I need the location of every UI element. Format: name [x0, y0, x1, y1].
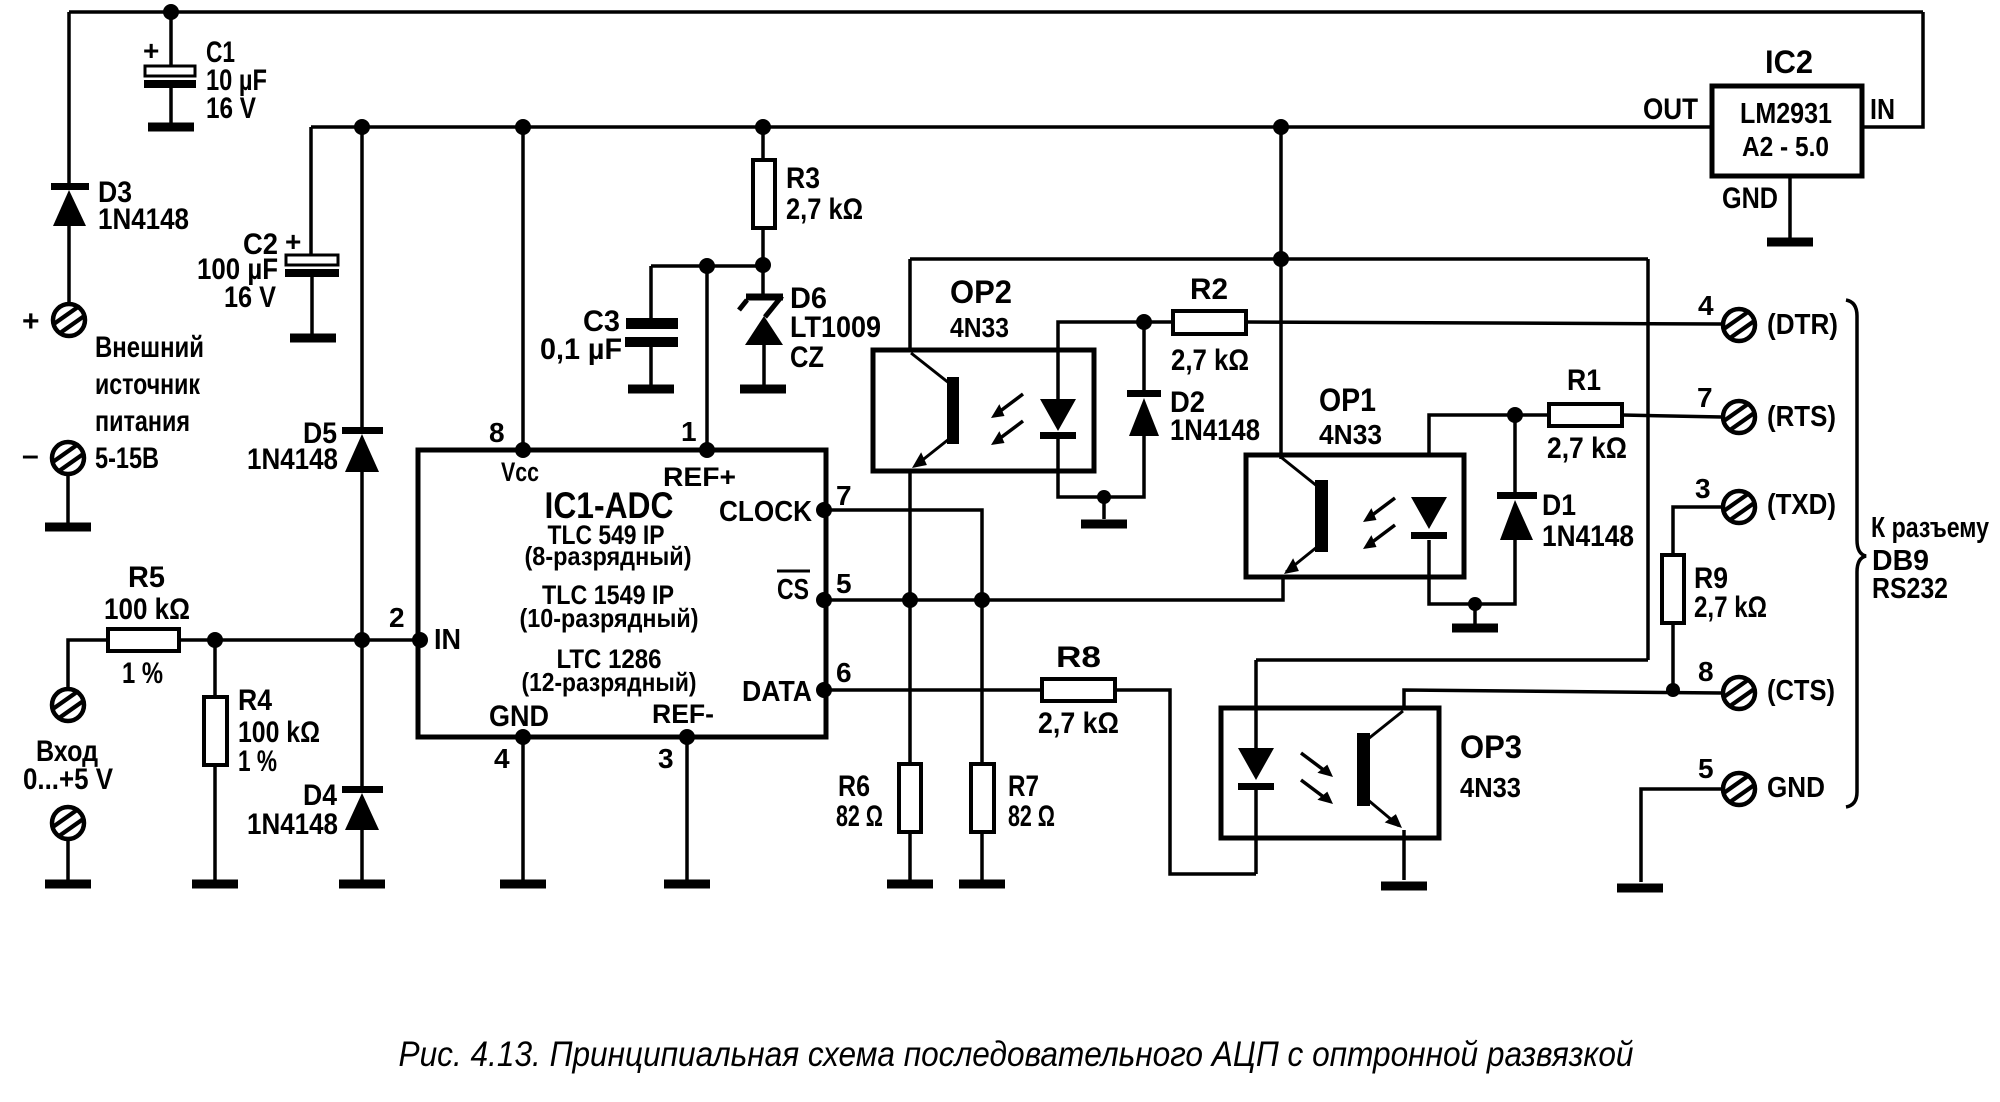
label terminal 5 GND	[1698, 753, 1825, 804]
label R3	[786, 162, 863, 226]
terminal input upper	[52, 689, 84, 721]
wire OP2 LED anode to R2	[1058, 322, 1173, 399]
svg-text:R3: R3	[786, 162, 820, 195]
label terminal 7 RTS	[1697, 382, 1836, 433]
wire D1 cathode stub	[1513, 415, 1517, 493]
svg-text:D1: D1	[1542, 489, 1576, 522]
resistor R6	[899, 764, 921, 832]
terminal 7 RTS	[1723, 401, 1755, 433]
svg-text:(10-разрядный): (10-разрядный)	[520, 603, 699, 633]
opto-coupler OP1 LED	[1411, 497, 1447, 539]
diode D1	[1497, 492, 1537, 540]
label C1	[143, 35, 267, 125]
wire IC1 pin4 GND to ground	[521, 737, 525, 880]
svg-text:DATA: DATA	[742, 676, 812, 708]
wire rail2 to D5	[360, 127, 364, 428]
wire minus terminal to ground	[66, 474, 70, 524]
IC1 CS overline	[777, 570, 810, 573]
ground under OP3	[1381, 885, 1427, 887]
wire OP3 LED anode drop	[1254, 660, 1258, 748]
IC1 internal labels	[434, 457, 812, 733]
svg-text:(TXD): (TXD)	[1767, 489, 1836, 521]
diode D3	[51, 183, 89, 226]
wire right distribution drop x1648	[1646, 259, 1650, 660]
svg-text:1N4148: 1N4148	[98, 203, 189, 236]
svg-text:2,7 kΩ: 2,7 kΩ	[786, 193, 863, 226]
wire OP1 LED cathode to ground node	[1429, 540, 1475, 604]
svg-text:2: 2	[389, 602, 405, 633]
svg-text:4N33: 4N33	[950, 312, 1009, 343]
ground under C3	[628, 388, 674, 390]
svg-text:2,7 kΩ: 2,7 kΩ	[1547, 432, 1627, 465]
svg-text:4N33: 4N33	[1319, 419, 1382, 450]
opto-coupler OP2 box	[873, 350, 1094, 471]
resistor R3	[753, 160, 775, 228]
svg-text:R7: R7	[1008, 770, 1039, 803]
opto-coupler OP1 phototransistor	[1280, 458, 1328, 579]
svg-text:GND: GND	[1722, 182, 1778, 215]
resistor R4	[204, 697, 227, 765]
wire distribution to OP3 y660	[1256, 658, 1648, 662]
svg-text:REF+: REF+	[663, 462, 736, 492]
ground under D6	[740, 388, 786, 390]
svg-text:8: 8	[489, 417, 505, 448]
svg-text:5-15В: 5-15В	[95, 442, 159, 475]
label C3	[540, 305, 622, 366]
resistor R2	[1173, 311, 1246, 334]
wire D5 anode down to IN node	[360, 472, 364, 640]
svg-text:+: +	[285, 226, 301, 257]
svg-text:OP1: OP1	[1319, 382, 1376, 418]
svg-text:(CTS): (CTS)	[1767, 675, 1835, 707]
wire D1 anode to ground node	[1475, 540, 1515, 604]
opto-coupler OP2 phototransistor	[908, 353, 959, 473]
wire R4 to ground	[213, 765, 217, 880]
svg-text:R6: R6	[838, 770, 870, 803]
svg-text:5: 5	[836, 568, 852, 599]
DB9 connector bracket	[1846, 300, 1866, 807]
svg-text:7: 7	[1697, 382, 1713, 413]
svg-text:источник: источник	[95, 368, 201, 401]
wire OP2 collector riser	[908, 259, 912, 352]
wire left branch from rail to D3	[67, 12, 71, 184]
svg-text:1N4148: 1N4148	[1542, 520, 1634, 553]
svg-text:+: +	[143, 35, 159, 66]
wire rail2 to R3	[761, 127, 765, 160]
wire D3 anode to + terminal	[67, 226, 71, 304]
wire C2 top stub	[309, 127, 313, 256]
svg-text:GND: GND	[489, 700, 549, 733]
svg-text:LT1009: LT1009	[790, 311, 881, 344]
svg-text:R5: R5	[128, 561, 165, 594]
svg-text:2,7 kΩ: 2,7 kΩ	[1171, 344, 1249, 377]
label R7	[1008, 770, 1055, 833]
ground under OP1/D1	[1452, 627, 1498, 629]
wire D6 anode to ground	[762, 345, 766, 385]
svg-text:–: –	[22, 439, 39, 472]
wire R1 to RTS terminal	[1622, 415, 1722, 417]
ground under OP2/D2	[1081, 523, 1127, 525]
svg-text:16 V: 16 V	[224, 281, 276, 314]
svg-text:4: 4	[1698, 290, 1714, 321]
label input	[23, 735, 113, 796]
svg-text:1: 1	[681, 416, 697, 447]
opto-coupler OP3 LED	[1238, 748, 1274, 790]
wire OP3 emitter to ground	[1402, 830, 1406, 880]
terminal 4 DTR	[1723, 309, 1755, 341]
wire CLOCK from IC1 pin7	[826, 510, 982, 600]
label D3	[98, 176, 189, 236]
wire rail2 to IC1 pin8	[521, 127, 525, 450]
label terminal 3 TXD	[1695, 473, 1836, 521]
svg-text:0,1 µF: 0,1 µF	[540, 333, 622, 366]
wire +5V rail (rail 2)	[311, 125, 1712, 129]
svg-text:3: 3	[1695, 473, 1711, 504]
svg-text:4: 4	[494, 743, 510, 774]
resistor R9	[1662, 555, 1684, 623]
zener diode D6	[739, 296, 783, 345]
wire C2 bottom stub	[310, 277, 314, 335]
wire rail2 drop at x1281	[1279, 127, 1283, 259]
svg-text:16 V: 16 V	[206, 92, 256, 125]
wire node to IC1 pin1 REF+	[705, 266, 709, 450]
ground under IC2	[1767, 241, 1813, 243]
label D5	[247, 417, 338, 476]
svg-text:IC2: IC2	[1765, 44, 1813, 80]
terminal 3 TXD	[1723, 491, 1755, 523]
label external supply text	[95, 331, 204, 475]
wire R5 to IC1 pin2 IN	[179, 638, 420, 642]
svg-text:LM2931: LM2931	[1740, 98, 1832, 130]
wire CS from IC1 pin5 to OP1 emitter	[826, 576, 1283, 600]
wire R3 bottom to node	[761, 228, 765, 265]
wire D4 anode to ground	[360, 830, 364, 880]
wire R8 to OP3 LED cathode	[1115, 690, 1256, 874]
label OP2	[950, 274, 1012, 343]
svg-text:IN: IN	[434, 624, 461, 656]
wire node to R4	[213, 640, 217, 697]
svg-text:4N33: 4N33	[1460, 772, 1521, 803]
wire OP2 ground stub	[1102, 497, 1106, 519]
opto-coupler OP2 LED	[1040, 399, 1076, 439]
svg-text:R4: R4	[238, 684, 272, 717]
svg-text:3: 3	[658, 743, 674, 774]
wire input terminal to R5	[68, 640, 108, 689]
wire D2 anode to ground node	[1104, 436, 1144, 497]
wire C3/REF+ node horizontal	[651, 264, 763, 268]
wire OP2 emitter down through CS node to R6	[908, 469, 912, 764]
svg-text:2,7 kΩ: 2,7 kΩ	[1694, 591, 1767, 624]
svg-text:+: +	[22, 305, 40, 338]
opto-coupler OP1 box	[1246, 455, 1464, 577]
label terminal 8 CTS	[1698, 656, 1835, 707]
wire +5V distribution horizontal y259	[910, 257, 1648, 261]
figure caption	[399, 1035, 1634, 1074]
wire node to OP1 collector drop x1281	[1279, 259, 1283, 459]
wire node to D6	[761, 265, 765, 295]
IC2 regulator box	[1712, 86, 1862, 176]
IC1 pin numbers	[389, 416, 852, 774]
svg-text:OUT: OUT	[1643, 93, 1698, 126]
label OP3	[1460, 729, 1522, 803]
terminal input lower	[52, 807, 84, 839]
ground under D4	[339, 883, 385, 885]
wire IC1 pin3 REF- to ground	[685, 737, 689, 880]
terminal 8 CTS	[1723, 677, 1755, 709]
svg-text:100 kΩ: 100 kΩ	[104, 593, 190, 626]
svg-text:1 %: 1 %	[122, 657, 163, 690]
label IC2	[1643, 44, 1895, 215]
wire C1 stub from rail	[169, 12, 173, 67]
label D4	[247, 779, 338, 841]
wire C1 bottom stub	[169, 88, 173, 124]
ground under R6	[887, 883, 933, 885]
label C2	[197, 226, 301, 314]
svg-text:Vcc: Vcc	[501, 457, 539, 487]
opto-coupler OP3 light arrows	[1301, 753, 1337, 809]
terminal + external supply	[53, 304, 85, 336]
svg-text:(12-разрядный): (12-разрядный)	[522, 667, 697, 697]
svg-text:A2 - 5.0: A2 - 5.0	[1742, 131, 1829, 162]
ground under C1	[148, 126, 194, 128]
svg-text:(8-разрядный): (8-разрядный)	[525, 541, 692, 571]
wire OP3 LED cathode stub	[1254, 790, 1258, 874]
svg-text:(RTS): (RTS)	[1767, 401, 1836, 433]
resistor R8	[1042, 679, 1115, 701]
svg-text:Внешний: Внешний	[95, 331, 204, 364]
label R9	[1694, 562, 1767, 624]
svg-text:2,7 kΩ: 2,7 kΩ	[1038, 707, 1119, 740]
wire R7 to ground	[980, 832, 984, 880]
svg-text:7: 7	[836, 480, 852, 511]
opto-coupler OP3 box	[1221, 708, 1439, 838]
label R5	[104, 561, 190, 690]
svg-text:К разъему: К разъему	[1871, 512, 1989, 544]
svg-text:1 %: 1 %	[238, 745, 277, 778]
svg-text:RS232: RS232	[1872, 573, 1948, 605]
ground under IC1 pin3	[664, 883, 710, 885]
svg-text:CLOCK: CLOCK	[719, 496, 812, 528]
label external supply -	[22, 439, 39, 472]
label D1	[1542, 489, 1634, 553]
wire CLOCK node down to R7	[980, 600, 984, 764]
label D6	[790, 282, 881, 374]
IC1 ADC box	[418, 450, 826, 737]
wire DATA from IC1 pin6 to R8	[826, 688, 1042, 692]
wire D4 cathode stub	[360, 640, 364, 787]
diode D2	[1127, 390, 1161, 436]
svg-text:Рис. 4.13. Принципиальная схем: Рис. 4.13. Принципиальная схема последов…	[399, 1035, 1634, 1074]
label external supply +	[22, 305, 40, 338]
svg-text:82 Ω: 82 Ω	[836, 800, 883, 833]
wire D2 cathode stub	[1142, 322, 1146, 391]
label R8	[1038, 641, 1119, 740]
svg-text:CZ: CZ	[790, 341, 824, 374]
label R2	[1171, 273, 1249, 377]
svg-text:R2: R2	[1190, 273, 1228, 306]
label R1	[1547, 364, 1627, 465]
svg-text:(DTR): (DTR)	[1767, 309, 1838, 341]
diode D4	[342, 786, 383, 830]
svg-text:REF-: REF-	[652, 699, 714, 729]
label R4	[238, 684, 320, 778]
svg-text:OP2: OP2	[950, 274, 1012, 310]
ground under IC1 pin4	[500, 883, 546, 885]
label OP1	[1319, 382, 1382, 450]
terminal - external supply	[52, 442, 84, 474]
svg-text:OP3: OP3	[1460, 729, 1522, 765]
ground under input terminal	[45, 883, 91, 885]
svg-text:8: 8	[1698, 656, 1714, 687]
wire GND5 terminal to ground	[1641, 789, 1722, 882]
ground under R7	[959, 883, 1005, 885]
ground under C2	[290, 337, 336, 339]
wire top rail right drop to IC2 IN	[1864, 12, 1923, 127]
ground under GND5 wire	[1617, 887, 1663, 889]
capacitor C3	[625, 318, 678, 347]
resistor R1	[1549, 404, 1622, 426]
wire R2 to DTR terminal	[1246, 322, 1722, 324]
svg-text:питания: питания	[95, 405, 190, 438]
wire TXD terminal to R9	[1673, 507, 1722, 555]
label R6	[836, 770, 883, 833]
svg-text:82 Ω: 82 Ω	[1008, 800, 1055, 833]
resistor R5	[108, 629, 179, 651]
wire C3 bottom stub	[649, 347, 653, 385]
terminal 5 GND	[1723, 773, 1755, 805]
ground under R4	[192, 883, 238, 885]
label D2	[1170, 386, 1260, 447]
svg-text:GND: GND	[1767, 772, 1825, 804]
wire C3 top stub	[649, 266, 653, 318]
wire input lower terminal to ground	[66, 839, 70, 880]
wire OP1 LED anode to R1	[1429, 415, 1549, 456]
svg-text:1N4148: 1N4148	[247, 808, 338, 841]
wire OP3 collector to CTS terminal	[1404, 690, 1722, 709]
svg-text:CS: CS	[777, 574, 809, 606]
svg-text:5: 5	[1698, 753, 1714, 784]
opto-coupler OP2 light arrows	[987, 394, 1023, 450]
opto-coupler OP1 light arrows	[1359, 498, 1395, 554]
svg-text:R8: R8	[1056, 641, 1101, 674]
svg-text:1N4148: 1N4148	[247, 443, 338, 476]
wire IC2 GND pin	[1788, 176, 1792, 238]
wire R6 to ground	[908, 832, 912, 880]
svg-text:IN: IN	[1870, 94, 1895, 126]
svg-text:R1: R1	[1567, 364, 1601, 397]
wire R9 bottom to CTS node	[1671, 623, 1675, 690]
capacitor C2	[285, 255, 339, 277]
label DB9 connector	[1871, 512, 1989, 605]
wire OP2 LED cathode to ground node	[1058, 438, 1104, 497]
ground under minus terminal	[45, 526, 91, 528]
resistor R7	[971, 764, 994, 832]
svg-text:6: 6	[836, 657, 852, 688]
svg-text:1N4148: 1N4148	[1170, 414, 1260, 447]
opto-coupler OP3 phototransistor	[1357, 711, 1406, 833]
wire OP1 ground stub	[1473, 604, 1477, 624]
wire top +V rail	[69, 10, 1923, 14]
label terminal 4 DTR	[1698, 290, 1838, 341]
svg-text:0...+5 V: 0...+5 V	[23, 763, 113, 796]
capacitor C1	[144, 66, 196, 88]
diode D5	[342, 427, 383, 472]
